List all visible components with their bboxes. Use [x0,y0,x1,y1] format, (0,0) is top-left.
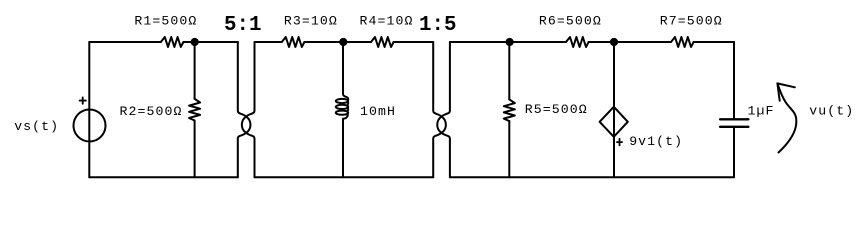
dependent source plus sign [617,139,622,146]
vu(t) arrow arc [777,83,796,152]
svg-text:R3=10Ω: R3=10Ω [284,13,338,28]
wire: section1 top rail [89,41,238,43]
resistor R3 [282,37,305,47]
node C junction dot [506,38,514,46]
node D junction dot [610,38,618,46]
wire: section1 bottom rail [89,176,238,178]
wire: inductor branch bottom lead [342,119,344,178]
wire: inductor branch top lead [342,42,344,94]
wire: section3 bottom rail [450,176,734,178]
resistor R6 [566,37,589,47]
wire: capacitor branch top lead [733,42,735,119]
svg-text:9v1(t): 9v1(t) [629,134,683,149]
vu(t) arrowhead [777,83,794,100]
resistor R5 [504,99,515,121]
svg-text:R2=500Ω: R2=500Ω [120,104,183,119]
svg-text:R4=10Ω: R4=10Ω [360,13,414,28]
transformer T2 right winding [437,42,450,177]
svg-text:10mH: 10mH [360,104,396,119]
wire: dependent source branch [613,42,615,177]
wire: R5 branch bottom lead [508,121,510,177]
node A junction dot [191,38,199,46]
wire: R2 branch bottom lead [194,121,196,178]
wire: section2 bottom rail [255,176,434,178]
wire: section3 top rail [450,41,734,43]
voltage source vs(t) circle [74,110,106,142]
wire: R5 branch top lead [508,42,510,99]
wire: R2 branch top lead [194,42,196,99]
svg-text:vu(t): vu(t) [809,103,854,118]
svg-text:1:5: 1:5 [419,14,456,37]
resistor R1 [161,37,184,47]
node B junction dot [339,38,347,46]
svg-text:vs(t): vs(t) [14,119,59,134]
svg-text:5:1: 5:1 [224,14,261,37]
svg-text:R5=500Ω: R5=500Ω [525,102,588,117]
svg-text:R6=500Ω: R6=500Ω [539,14,602,29]
wire: capacitor branch bottom lead [733,127,735,178]
svg-text:1µF: 1µF [748,104,775,119]
wire: section2 top rail [255,41,434,43]
wire: left vertical with source [88,42,90,177]
transformer T1 left winding [238,42,251,177]
capacitor C1 [720,119,748,127]
dependent source U1 diamond [600,107,628,137]
transformer T2 left winding [433,42,446,177]
transformer T1 right winding [242,42,255,177]
resistor R4 [371,37,394,47]
resistor R2 [189,99,200,121]
voltage source plus sign [80,98,86,104]
inductor L1 10mH [343,94,348,99]
svg-text:R1=500Ω: R1=500Ω [134,14,197,29]
svg-text:R7=500Ω: R7=500Ω [660,14,723,29]
resistor R7 [671,37,694,47]
